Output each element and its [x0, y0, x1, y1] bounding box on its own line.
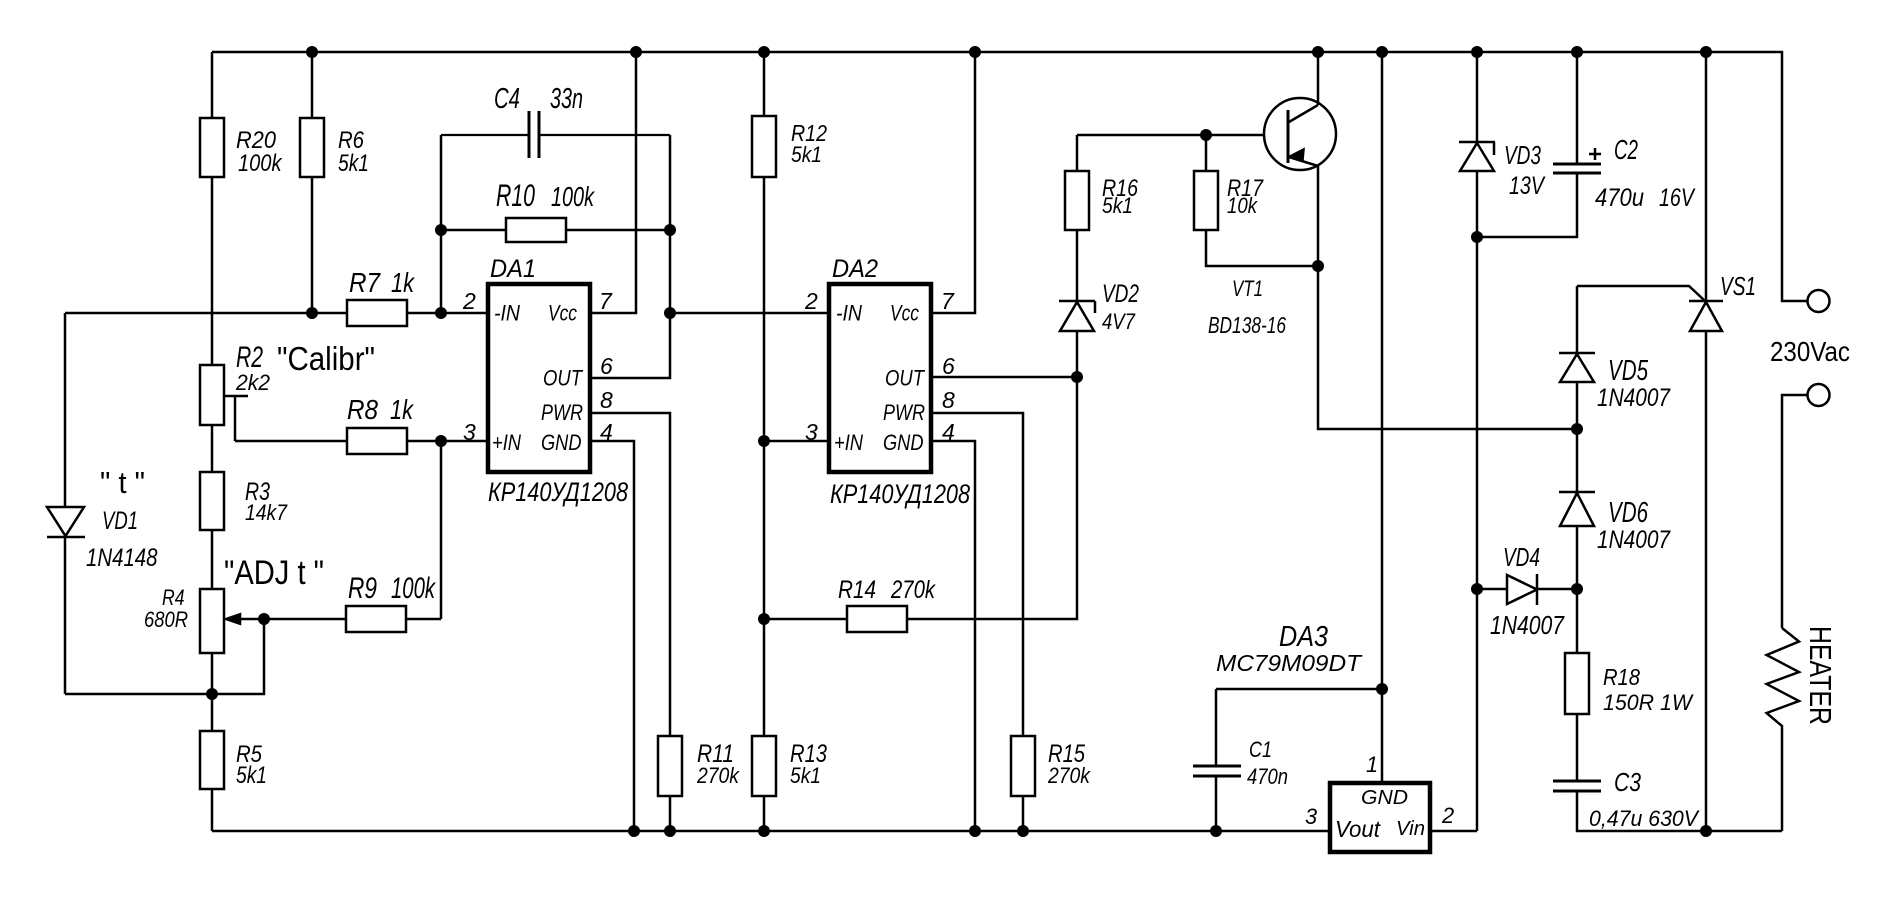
svg-text:GND: GND — [1361, 787, 1408, 809]
svg-text:R7: R7 — [349, 266, 381, 298]
wire DA3 GND riser — [1381, 52, 1384, 689]
wire R12 down to +IN row — [763, 177, 766, 441]
wire VD1 branch top — [65, 312, 347, 315]
svg-text:5k1: 5k1 — [338, 150, 369, 177]
svg-text:VT1: VT1 — [1232, 276, 1263, 301]
svg-text:-IN: -IN — [836, 301, 862, 326]
wire VT1 base row — [1077, 134, 1288, 137]
svg-text:1k: 1k — [390, 393, 414, 425]
capacitor C4 right side down — [669, 135, 672, 313]
wire R2 wiper — [224, 396, 248, 441]
resistor R5 — [200, 731, 224, 789]
wire R4 to node — [211, 653, 214, 694]
wire R11 to ground rail — [669, 796, 672, 831]
svg-text:8: 8 — [600, 387, 613, 413]
node R17 top — [1200, 129, 1212, 141]
svg-text:3: 3 — [805, 419, 818, 445]
wire R20 to R2 — [211, 177, 214, 365]
node emitter to VD5/VD6 junction — [1571, 423, 1583, 435]
svg-text:DA2: DA2 — [832, 255, 878, 283]
node R15 ground — [1017, 825, 1029, 837]
heater element — [1767, 628, 1799, 831]
node R6 bottom — [306, 307, 318, 319]
node DA2 GND ground — [969, 825, 981, 837]
transistor VT1 — [1264, 98, 1336, 170]
resistor R17 — [1205, 135, 1208, 171]
wire R5 to ground rail — [211, 789, 214, 831]
node R8/R9 junction — [435, 435, 447, 447]
wire node to R5 — [211, 694, 214, 731]
wire R10 right — [566, 229, 670, 232]
node R14 left junction — [758, 613, 770, 625]
wire DA1 pin6 OUT — [590, 313, 670, 378]
svg-text:10k: 10k — [1227, 193, 1258, 218]
wire R9 to riser — [406, 618, 441, 621]
wire R13 to ground rail — [763, 796, 766, 831]
node R11 ground — [664, 825, 676, 837]
svg-text:R8: R8 — [347, 393, 378, 425]
node DA2 Vcc on rail — [969, 46, 981, 58]
svg-text:R18: R18 — [1603, 664, 1640, 690]
wire VD6 node to R18 — [1576, 589, 1579, 653]
svg-text:14k7: 14k7 — [245, 500, 288, 525]
capacitor C2 plus sign — [1589, 148, 1601, 160]
svg-text:4V7: 4V7 — [1102, 309, 1136, 334]
svg-text:270k: 270k — [696, 763, 740, 788]
svg-text:PWR: PWR — [883, 400, 925, 425]
svg-text:Vout: Vout — [1335, 816, 1382, 842]
wire DA1 pin7 Vcc riser — [590, 52, 636, 313]
svg-text:270k: 270k — [890, 577, 936, 604]
svg-text:2k2: 2k2 — [235, 370, 270, 395]
wire VD1 bottom to junction — [65, 693, 212, 696]
wire DA2 pin4 GND down — [931, 441, 975, 831]
resistor R16 — [1065, 171, 1089, 230]
wire DA1 OUT to DA2 -IN — [670, 312, 829, 315]
wire R9 row — [264, 618, 346, 621]
wire bottom terminal to heater — [1782, 395, 1808, 628]
capacitor C4 — [441, 134, 528, 136]
svg-text:+IN: +IN — [492, 430, 521, 455]
wire DA2 pin7 Vcc riser — [931, 52, 975, 313]
svg-text:2: 2 — [1441, 803, 1454, 828]
capacitor C3 — [1553, 780, 1601, 783]
svg-text:Vin: Vin — [1396, 818, 1425, 840]
wire DA2 +IN — [764, 440, 829, 443]
svg-text:"ADJ t ": "ADJ t " — [224, 554, 324, 592]
svg-text:100k: 100k — [238, 150, 283, 177]
node R7/C4 junction — [435, 307, 447, 319]
resistor R18 — [1565, 653, 1589, 714]
resistor R7 — [347, 300, 407, 326]
svg-text:230Vac: 230Vac — [1770, 336, 1850, 367]
node R10 left — [435, 224, 447, 236]
svg-text:5k1: 5k1 — [791, 142, 822, 167]
resistor R3 — [200, 472, 224, 530]
svg-text:5k1: 5k1 — [1102, 193, 1133, 218]
svg-text:Vcc: Vcc — [890, 301, 919, 326]
wire top supply rail — [212, 52, 1808, 301]
zener diode VD3 — [1460, 143, 1494, 171]
svg-text:DA3: DA3 — [1279, 620, 1328, 652]
resistor R10 wire — [441, 229, 506, 232]
wire R15 to ground rail — [1022, 796, 1025, 831]
wire R18 to C3 — [1576, 714, 1579, 781]
node DA3 GND riser on rail — [1376, 46, 1388, 58]
resistor R10 — [506, 218, 566, 242]
wire R8 row — [235, 440, 347, 443]
wire riser to DA3 pin1 — [1381, 689, 1384, 783]
wire DA1 pin4 GND down — [590, 441, 634, 831]
svg-text:КР140УД1208: КР140УД1208 — [488, 476, 628, 507]
wire VD4 node down to Vin — [1476, 589, 1479, 831]
svg-text:OUT: OUT — [885, 366, 925, 391]
wire DA2 pin6 OUT — [931, 376, 1077, 379]
svg-text:C3: C3 — [1614, 767, 1641, 797]
svg-text:1N4148: 1N4148 — [86, 544, 158, 572]
terminal 230Vac bottom — [1808, 384, 1830, 406]
svg-text:VS1: VS1 — [1720, 271, 1756, 301]
wire R4 wiper arrow — [240, 618, 264, 621]
svg-text:7: 7 — [599, 288, 613, 314]
svg-text:C2: C2 — [1614, 134, 1638, 165]
svg-text:8: 8 — [942, 387, 955, 413]
svg-text:VD2: VD2 — [1102, 281, 1139, 308]
wire R3 to R4 — [211, 530, 214, 589]
svg-text:33n: 33n — [550, 83, 583, 115]
svg-text:PWR: PWR — [541, 400, 583, 425]
svg-text:MC79M09DT: MC79M09DT — [1216, 650, 1363, 676]
svg-text:5k1: 5k1 — [790, 763, 821, 788]
node R9/R4 wiper junction — [258, 613, 270, 625]
node R6 top on rail — [306, 46, 318, 58]
wire wiper node down — [212, 619, 264, 694]
svg-text:VD3: VD3 — [1504, 142, 1541, 170]
svg-text:6: 6 — [942, 353, 955, 379]
svg-text:OUT: OUT — [543, 366, 583, 391]
svg-text:13V: 13V — [1509, 173, 1546, 200]
svg-text:R14: R14 — [838, 577, 876, 604]
svg-text:270k: 270k — [1047, 763, 1091, 788]
svg-text:" t ": " t " — [100, 466, 145, 500]
svg-text:4: 4 — [942, 419, 955, 445]
node DA2 OUT / VD2 junction — [1071, 371, 1083, 383]
svg-text:R10: R10 — [496, 178, 535, 213]
node OUT feedback junction — [664, 307, 676, 319]
wire DA1 pin8 PWR to R11 — [590, 413, 670, 736]
terminal 230Vac top — [1808, 290, 1830, 312]
node VD3 top on rail — [1471, 46, 1483, 58]
node VS1 bottom junction — [1700, 825, 1712, 837]
resistor R6 — [311, 52, 314, 118]
svg-text:VD4: VD4 — [1503, 544, 1540, 572]
wire R12 node down to R14/R13 — [763, 441, 766, 736]
potentiometer R2 — [200, 365, 224, 425]
wire C3 to bottom — [1577, 791, 1782, 831]
svg-text:7: 7 — [941, 288, 955, 314]
svg-text:1k: 1k — [391, 266, 415, 298]
node C1/DA3 GND junction — [1376, 683, 1388, 695]
svg-text:VD6: VD6 — [1608, 496, 1648, 528]
capacitor C1 — [1215, 689, 1218, 766]
diode VD5 — [1576, 286, 1579, 353]
svg-text:100k: 100k — [551, 181, 595, 212]
diode VD6 — [1576, 429, 1579, 492]
wire bottom ground rail — [212, 830, 1330, 833]
svg-text:470u: 470u — [1595, 185, 1644, 212]
wire R16 to VD2 — [1076, 230, 1079, 301]
svg-text:Vcc: Vcc — [548, 301, 577, 326]
wire VT1 emitter down — [1318, 166, 1577, 429]
wire VS1 gate — [1577, 286, 1704, 300]
node R12/DA2 +IN junction — [758, 435, 770, 447]
node VD4 cathode junction — [1571, 583, 1583, 595]
svg-text:1: 1 — [1366, 752, 1378, 777]
op-amp DA1 box — [488, 284, 590, 472]
svg-text:HEATER: HEATER — [1803, 626, 1838, 725]
svg-text:4: 4 — [600, 419, 613, 445]
svg-text:КР140УД1208: КР140УД1208 — [830, 478, 970, 509]
node DA1 Vcc on rail — [630, 46, 642, 58]
resistor R15 — [1011, 736, 1035, 796]
node R4/R5/VD1 junction — [206, 688, 218, 700]
svg-text:5k1: 5k1 — [236, 762, 267, 789]
node VT1 collector on rail — [1312, 46, 1324, 58]
regulator DA3 box — [1330, 783, 1430, 852]
svg-text:GND: GND — [883, 430, 924, 455]
svg-text:C4: C4 — [494, 83, 520, 115]
svg-text:1N4007: 1N4007 — [1597, 526, 1671, 554]
svg-text:-IN: -IN — [494, 301, 520, 326]
zener diode VD2 — [1060, 302, 1094, 331]
resistor R11 — [658, 736, 682, 796]
svg-text:3: 3 — [1305, 804, 1317, 829]
svg-text:3: 3 — [463, 419, 476, 445]
svg-text:R9: R9 — [348, 572, 377, 605]
svg-text:1N4007: 1N4007 — [1597, 384, 1671, 412]
wire R2 to R3 — [211, 425, 214, 472]
node R13 ground — [758, 825, 770, 837]
wire R16 top — [1076, 135, 1079, 171]
resistor R9 — [346, 606, 406, 632]
svg-text:VD1: VD1 — [102, 508, 138, 535]
svg-text:C1: C1 — [1249, 737, 1272, 762]
node VD3/C2 junction — [1471, 231, 1483, 243]
svg-text:470n: 470n — [1247, 764, 1288, 789]
diode VD1 — [64, 313, 67, 507]
thyristor VS1 — [1705, 52, 1708, 301]
svg-text:"Calibr": "Calibr" — [277, 341, 375, 378]
svg-text:DA1: DA1 — [490, 255, 536, 283]
node C1 ground — [1210, 825, 1222, 837]
svg-text:1N4007: 1N4007 — [1490, 612, 1565, 640]
wire VD3 branch down to VD4 node — [1476, 237, 1479, 589]
capacitor C4 left wire — [440, 135, 443, 313]
svg-text:680R: 680R — [144, 607, 188, 632]
svg-text:100k: 100k — [391, 572, 436, 605]
wire DA2 pin8 PWR to R15 — [931, 413, 1023, 736]
op-amp DA2 box — [829, 284, 931, 472]
svg-text:16V: 16V — [1659, 185, 1696, 212]
node VS1 top on rail — [1700, 46, 1712, 58]
resistor R20 — [211, 52, 214, 118]
svg-text:2: 2 — [804, 288, 818, 314]
capacitor C2 — [1576, 52, 1579, 164]
diode VD4 — [1477, 588, 1507, 591]
node R12 top on rail — [758, 46, 770, 58]
svg-text:2: 2 — [462, 288, 476, 314]
resistor R13 — [752, 736, 776, 796]
wire DA3 Vin to riser — [1430, 830, 1477, 833]
capacitor C1 top wire — [1216, 688, 1382, 691]
potentiometer R4 — [200, 589, 224, 653]
wire VD3 branch — [1476, 52, 1479, 142]
svg-text:0,47u 630V: 0,47u 630V — [1589, 806, 1700, 831]
wire R7 to DA1 -IN — [407, 312, 488, 315]
node R10 right — [664, 224, 676, 236]
svg-text:6: 6 — [600, 353, 613, 379]
svg-text:150R 1W: 150R 1W — [1603, 690, 1694, 715]
svg-text:BD138-16: BD138-16 — [1208, 312, 1286, 338]
node emitter junction — [1312, 260, 1324, 272]
wire R9 riser — [440, 441, 443, 619]
wire R8 to DA1 +IN — [407, 440, 488, 443]
svg-text:GND: GND — [541, 430, 582, 455]
svg-text:VD5: VD5 — [1608, 354, 1648, 386]
resistor R8 — [347, 428, 407, 454]
resistor R14 wire and feedback — [764, 377, 1077, 619]
node DA1 GND ground — [628, 825, 640, 837]
resistor R12 — [763, 52, 766, 116]
svg-text:+IN: +IN — [834, 430, 863, 455]
wire R17 to emitter — [1206, 230, 1318, 266]
node C2 top on rail — [1571, 46, 1583, 58]
resistor R14 — [847, 606, 907, 632]
node VD4 anode junction — [1471, 583, 1483, 595]
